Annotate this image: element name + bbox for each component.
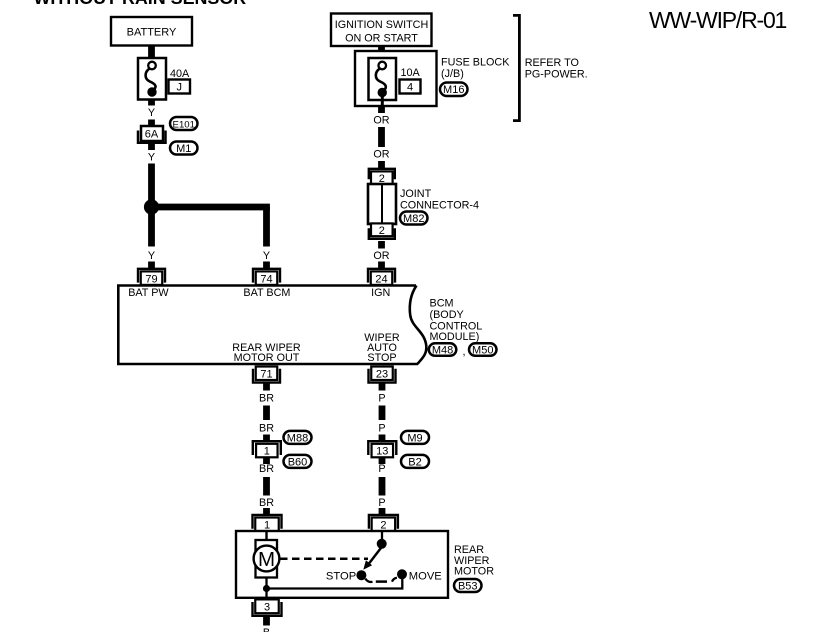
wire ignition to fuse block [378, 46, 385, 59]
wire stub above pin 24 [378, 262, 385, 269]
svg-text:Y: Y [148, 152, 155, 164]
wire stub below pin (right) [379, 384, 386, 391]
wire OR segment [378, 127, 385, 147]
svg-text:BR: BR [259, 497, 274, 509]
svg-text:M1: M1 [176, 143, 191, 155]
wire junction branch horizontal [152, 204, 270, 211]
svg-text:CONNECTOR-4: CONNECTOR-4 [400, 199, 479, 211]
connector M88 oval [284, 431, 312, 444]
svg-text:PG-POWER.: PG-POWER. [525, 68, 588, 80]
svg-text:(BODY: (BODY [430, 309, 464, 321]
connector E101/M1 pin 6A [141, 126, 163, 141]
svg-text:P: P [378, 393, 385, 405]
svg-text:STOP: STOP [326, 570, 356, 582]
BCM pin 71 [253, 369, 280, 383]
wire stub above pin 79 [148, 262, 155, 269]
svg-text:MOTOR: MOTOR [454, 566, 494, 578]
mechanical link dashed [280, 558, 368, 561]
wire P segment 2 [379, 477, 386, 496]
connector M16 oval [440, 83, 468, 97]
motor M1 armature [256, 540, 278, 578]
wire stub above connector 6A [148, 120, 155, 127]
MOVE contact dot [397, 569, 407, 579]
wire stub above motor pin (left) [263, 508, 270, 516]
joint connector pin 2 bottom [369, 228, 395, 239]
svg-text:23: 23 [376, 368, 388, 380]
connector M82 oval [400, 212, 428, 225]
svg-text:BR: BR [259, 393, 274, 405]
svg-text:Y: Y [148, 107, 155, 119]
connector B60 oval [284, 455, 312, 468]
BCM pin 79 [138, 269, 165, 283]
wire battery to fuse 40A [148, 46, 155, 59]
svg-text:M88: M88 [287, 432, 308, 444]
svg-text:OR: OR [373, 115, 389, 127]
rear wiper motor box [236, 531, 448, 598]
joint connector-4 body [368, 184, 396, 224]
wire stub below connector (left) [263, 458, 270, 464]
svg-text:M9: M9 [407, 432, 422, 444]
svg-text:P: P [378, 463, 385, 475]
svg-text:M: M [258, 548, 275, 571]
svg-text:OR: OR [373, 149, 389, 161]
svg-text:3: 3 [264, 601, 270, 613]
wire P segment 1 [379, 406, 386, 421]
connector E101 oval [170, 117, 198, 130]
wire stub above connector M9 [379, 435, 386, 442]
svg-text:MOVE: MOVE [409, 570, 442, 582]
svg-text:REFER TO: REFER TO [525, 57, 579, 69]
svg-text:BR: BR [259, 463, 274, 475]
svg-text:,: , [463, 346, 466, 358]
svg-text:B53: B53 [458, 580, 478, 592]
BCM pin 24 [368, 269, 395, 283]
wire stub above joint connector [378, 161, 385, 169]
svg-text:FUSE BLOCK: FUSE BLOCK [441, 57, 510, 69]
wire BR segment 2 [263, 477, 270, 496]
wire pin2 to switch [381, 531, 383, 544]
svg-text:J: J [176, 82, 182, 94]
connector B2 oval [401, 455, 429, 468]
wire stub below pin 3 [263, 617, 270, 626]
svg-text:13: 13 [376, 446, 388, 458]
svg-text:79: 79 [145, 273, 157, 285]
svg-text:ON OR START: ON OR START [345, 33, 418, 45]
switch pivot contact dot [377, 539, 387, 549]
svg-text:B60: B60 [288, 456, 308, 468]
svg-text:Y: Y [148, 250, 155, 262]
fuse block J/B box [355, 51, 437, 106]
svg-text:P: P [378, 497, 385, 509]
svg-text:WW-WIP/R-01: WW-WIP/R-01 [649, 7, 787, 33]
wire stub below connector (right) [379, 458, 386, 464]
BCM body (wavy right edge) [118, 286, 418, 365]
svg-text:24: 24 [375, 273, 387, 285]
svg-text:P: P [378, 423, 385, 435]
svg-text:BATTERY: BATTERY [127, 27, 177, 39]
connector M48 oval [429, 343, 457, 356]
wire stub above motor pin (right) [379, 508, 386, 516]
wire BR segment 1 [263, 406, 270, 421]
wire stub below fuse block [378, 106, 385, 113]
svg-text:IGN: IGN [371, 287, 390, 299]
svg-text:B: B [263, 627, 270, 632]
wire stub above pin 74 [263, 262, 270, 269]
svg-text:B2: B2 [408, 456, 421, 468]
svg-text:1: 1 [264, 446, 270, 458]
wire Y branch down to BAT BCM [263, 207, 270, 247]
svg-text:40A: 40A [170, 68, 190, 80]
wire fuse to block bottom [381, 96, 384, 106]
wire stub below pin (left) [263, 384, 270, 391]
connector M1 oval [170, 142, 198, 155]
wire stub below fuse 40A [148, 100, 155, 106]
fuse 10A (fusible link) [369, 58, 397, 100]
svg-text:74: 74 [260, 273, 272, 285]
refer bracket [513, 15, 519, 120]
motor pin 1 [253, 515, 282, 529]
svg-text:BAT PW: BAT PW [128, 287, 169, 299]
svg-text:MODULE): MODULE) [430, 331, 480, 343]
svg-text:OR: OR [373, 250, 389, 262]
connector M50 oval [469, 343, 497, 356]
svg-text:BR: BR [259, 423, 274, 435]
motor pin 3 [253, 602, 282, 616]
motor output junction dot [263, 585, 270, 592]
svg-text:Y: Y [263, 250, 270, 262]
fuse 40A (fusible link) [138, 58, 166, 100]
wire Y junction to BAT PW [148, 211, 155, 247]
BCM pin 23 [369, 369, 396, 383]
svg-text:MOTOR OUT: MOTOR OUT [234, 352, 300, 364]
wire pin1 to motor [265, 531, 267, 541]
svg-text:WITHOUT RAIN SENSOR: WITHOUT RAIN SENSOR [34, 0, 247, 8]
wire junction to move contact [267, 574, 403, 588]
svg-text:M16: M16 [443, 84, 464, 96]
connector M9/B2 pin 13 [368, 441, 396, 455]
fuse number 4 box [400, 80, 421, 94]
svg-text:4: 4 [407, 82, 413, 94]
svg-text:M50: M50 [472, 344, 493, 356]
switch arm with arrow [369, 547, 382, 564]
svg-text:M82: M82 [403, 213, 424, 225]
battery B1 [111, 17, 192, 46]
connector M88/B60 pin 1 [253, 441, 281, 455]
switch throw contact hooks and dash [365, 579, 372, 582]
svg-text:JOINT: JOINT [400, 188, 432, 200]
STOP contact dot [356, 570, 366, 580]
wire stub below connector 6A [148, 144, 155, 151]
fuse location J box [169, 80, 191, 94]
BCM pin 74 [253, 269, 280, 283]
svg-text:BCM: BCM [430, 298, 454, 310]
svg-text:6A: 6A [145, 129, 159, 141]
svg-text:E101: E101 [173, 119, 195, 130]
ignition switch box [331, 14, 432, 47]
connector B53 oval [454, 579, 482, 592]
svg-text:BAT BCM: BAT BCM [243, 287, 290, 299]
wire stub below joint connector [378, 241, 385, 249]
svg-text:(J/B): (J/B) [441, 68, 464, 80]
motor pin 2 [369, 515, 398, 529]
svg-text:1: 1 [264, 520, 270, 532]
svg-text:IGNITION SWITCH: IGNITION SWITCH [335, 19, 429, 31]
svg-text:71: 71 [260, 368, 272, 380]
joint connector pin 2 top [369, 169, 395, 180]
svg-text:M48: M48 [432, 344, 453, 356]
connector M9 oval [401, 431, 429, 444]
svg-text:2: 2 [379, 225, 385, 237]
wire Y down to junction [148, 164, 155, 204]
svg-text:10A: 10A [401, 67, 421, 79]
wire stub above connector M88 [263, 435, 270, 442]
junction dot [144, 199, 159, 214]
svg-text:2: 2 [380, 520, 386, 532]
wire motor to junction [265, 578, 267, 600]
svg-text:STOP: STOP [367, 352, 396, 364]
